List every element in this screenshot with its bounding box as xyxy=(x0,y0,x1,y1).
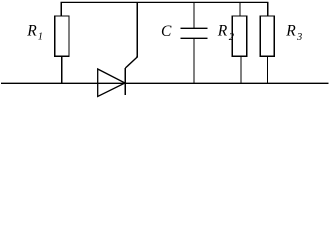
thyristor V cathode bar xyxy=(124,68,126,95)
thyristor V gate wire xyxy=(125,56,137,68)
svg-text:C: C xyxy=(161,23,172,40)
capacitor C top plate xyxy=(181,27,208,29)
wire R3 top stub xyxy=(267,2,269,16)
wire bottom rail xyxy=(1,82,329,84)
wire R3 bottom lead xyxy=(267,56,269,83)
wire R1 top stub xyxy=(60,2,62,16)
wire R2 top stub xyxy=(239,2,241,16)
thyristor V anode triangle xyxy=(98,69,125,97)
thyristor V gate vertical to top rail xyxy=(136,2,138,57)
svg-text:3: 3 xyxy=(296,32,302,43)
wire R2 bottom lead xyxy=(240,56,242,83)
svg-text:R: R xyxy=(217,23,228,40)
capacitor C bottom plate xyxy=(181,37,208,39)
svg-text:R: R xyxy=(285,23,296,40)
wire top rail xyxy=(61,1,269,3)
wire R1 bottom lead xyxy=(61,56,63,83)
svg-text:1: 1 xyxy=(38,31,43,42)
svg-text:R: R xyxy=(26,23,37,40)
resistor R3 body xyxy=(260,16,274,56)
capacitor C bottom lead xyxy=(193,38,195,83)
svg-text:2: 2 xyxy=(229,32,235,43)
resistor R2 body xyxy=(232,16,247,56)
resistor R1 body xyxy=(55,16,69,56)
capacitor C top lead xyxy=(193,2,195,28)
